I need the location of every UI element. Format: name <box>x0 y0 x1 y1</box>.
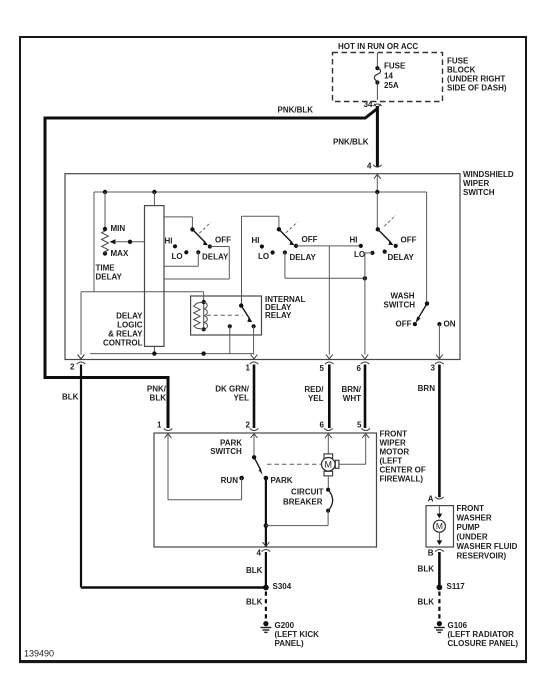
svg-text:S117: S117 <box>447 582 466 591</box>
svg-text:TIME: TIME <box>96 263 116 272</box>
svg-text:MAX: MAX <box>111 249 129 258</box>
svg-text:(LEFT: (LEFT <box>380 456 403 465</box>
svg-text:PNK/: PNK/ <box>147 384 167 393</box>
svg-text:BRN/: BRN/ <box>341 385 361 394</box>
svg-text:25A: 25A <box>384 81 399 90</box>
svg-text:DELAY: DELAY <box>388 253 415 262</box>
svg-text:SWITCH: SWITCH <box>463 188 495 197</box>
svg-text:WIPER: WIPER <box>463 179 489 188</box>
svg-text:MOTOR: MOTOR <box>380 447 410 456</box>
svg-text:SWITCH: SWITCH <box>210 447 242 456</box>
svg-text:& RELAY: & RELAY <box>108 329 143 338</box>
svg-text:BLK: BLK <box>418 597 435 606</box>
svg-text:OFF: OFF <box>215 235 231 244</box>
svg-text:PNK/BLK: PNK/BLK <box>278 105 314 114</box>
svg-text:BLK: BLK <box>246 566 263 575</box>
svg-text:BLK: BLK <box>150 393 167 402</box>
svg-text:WASH: WASH <box>391 291 415 300</box>
svg-text:CLOSURE PANEL): CLOSURE PANEL) <box>448 639 519 648</box>
svg-text:LO: LO <box>172 252 183 261</box>
svg-text:FRONT: FRONT <box>457 504 485 513</box>
svg-text:HI: HI <box>252 236 260 245</box>
svg-text:PNK/BLK: PNK/BLK <box>333 137 369 146</box>
svg-text:DK GRN/: DK GRN/ <box>215 385 250 394</box>
svg-text:HI: HI <box>350 236 358 245</box>
svg-text:4: 4 <box>257 548 262 557</box>
svg-text:RUN: RUN <box>221 476 239 485</box>
svg-text:SIDE OF DASH): SIDE OF DASH) <box>447 83 507 92</box>
svg-text:2: 2 <box>70 362 75 371</box>
svg-text:YEL: YEL <box>308 394 324 403</box>
svg-text:BLK: BLK <box>62 392 79 401</box>
svg-text:CENTER OF: CENTER OF <box>380 465 426 474</box>
svg-text:WASHER: WASHER <box>457 513 492 522</box>
svg-text:14: 14 <box>384 71 393 80</box>
svg-text:(UNDER RIGHT: (UNDER RIGHT <box>447 74 505 83</box>
svg-text:A: A <box>428 495 434 504</box>
svg-text:YEL: YEL <box>233 394 249 403</box>
svg-text:(UNDER: (UNDER <box>457 532 488 541</box>
svg-text:FIREWALL): FIREWALL) <box>380 474 424 483</box>
svg-text:BLK: BLK <box>418 565 435 574</box>
svg-text:RED/: RED/ <box>304 385 324 394</box>
svg-text:MIN: MIN <box>111 224 126 233</box>
svg-text:(LEFT KICK: (LEFT KICK <box>275 630 320 639</box>
svg-text:6: 6 <box>357 364 362 373</box>
svg-text:3: 3 <box>431 363 436 372</box>
svg-text:PUMP: PUMP <box>457 523 481 532</box>
svg-text:G106: G106 <box>448 621 468 630</box>
svg-text:CONTROL: CONTROL <box>103 338 143 347</box>
svg-text:4: 4 <box>367 162 372 171</box>
svg-text:SWITCH: SWITCH <box>384 300 416 309</box>
svg-text:BLK: BLK <box>246 597 263 606</box>
svg-text:5: 5 <box>357 421 362 430</box>
svg-text:WINDSHIELD: WINDSHIELD <box>463 170 514 179</box>
svg-text:FUSE: FUSE <box>384 62 406 71</box>
svg-text:CIRCUIT: CIRCUIT <box>291 488 324 497</box>
svg-text:M: M <box>436 521 443 531</box>
svg-text:HOT IN RUN OR ACC: HOT IN RUN OR ACC <box>338 42 418 51</box>
svg-text:HI: HI <box>165 236 173 245</box>
svg-text:1: 1 <box>246 363 251 372</box>
svg-text:WASHER FLUID: WASHER FLUID <box>457 542 518 551</box>
svg-text:1: 1 <box>157 421 162 430</box>
svg-text:PANEL): PANEL) <box>275 639 305 648</box>
svg-text:PARK: PARK <box>271 476 293 485</box>
svg-text:OFF: OFF <box>302 235 318 244</box>
svg-text:RELAY: RELAY <box>265 311 292 320</box>
svg-text:ON: ON <box>444 320 456 329</box>
svg-text:DELAY: DELAY <box>96 272 123 281</box>
svg-text:B: B <box>428 548 434 557</box>
svg-text:OFF: OFF <box>396 320 412 329</box>
svg-text:WIPER: WIPER <box>380 438 406 447</box>
svg-text:34: 34 <box>364 100 373 109</box>
svg-text:6: 6 <box>320 421 325 430</box>
svg-text:BLOCK: BLOCK <box>447 65 476 74</box>
svg-text:WHT: WHT <box>343 394 361 403</box>
svg-text:G200: G200 <box>275 621 295 630</box>
svg-text:DELAY: DELAY <box>116 311 143 320</box>
svg-text:LOGIC: LOGIC <box>117 320 143 329</box>
svg-text:(LEFT RADIATOR: (LEFT RADIATOR <box>448 630 515 639</box>
svg-text:OFF: OFF <box>401 236 417 245</box>
svg-text:BRN: BRN <box>418 384 436 393</box>
svg-text:S304: S304 <box>273 582 292 591</box>
svg-text:RESERVOIR): RESERVOIR) <box>457 551 507 560</box>
svg-text:LO: LO <box>354 250 365 259</box>
svg-text:DELAY: DELAY <box>202 252 229 261</box>
svg-text:FRONT: FRONT <box>380 429 408 438</box>
svg-text:FUSE: FUSE <box>447 56 469 65</box>
svg-text:139490: 139490 <box>24 649 54 659</box>
svg-text:M: M <box>325 460 333 470</box>
svg-text:5: 5 <box>320 364 325 373</box>
svg-text:BREAKER: BREAKER <box>283 498 323 507</box>
svg-text:2: 2 <box>246 421 251 430</box>
svg-text:LO: LO <box>258 252 269 261</box>
svg-text:DELAY: DELAY <box>290 253 317 262</box>
